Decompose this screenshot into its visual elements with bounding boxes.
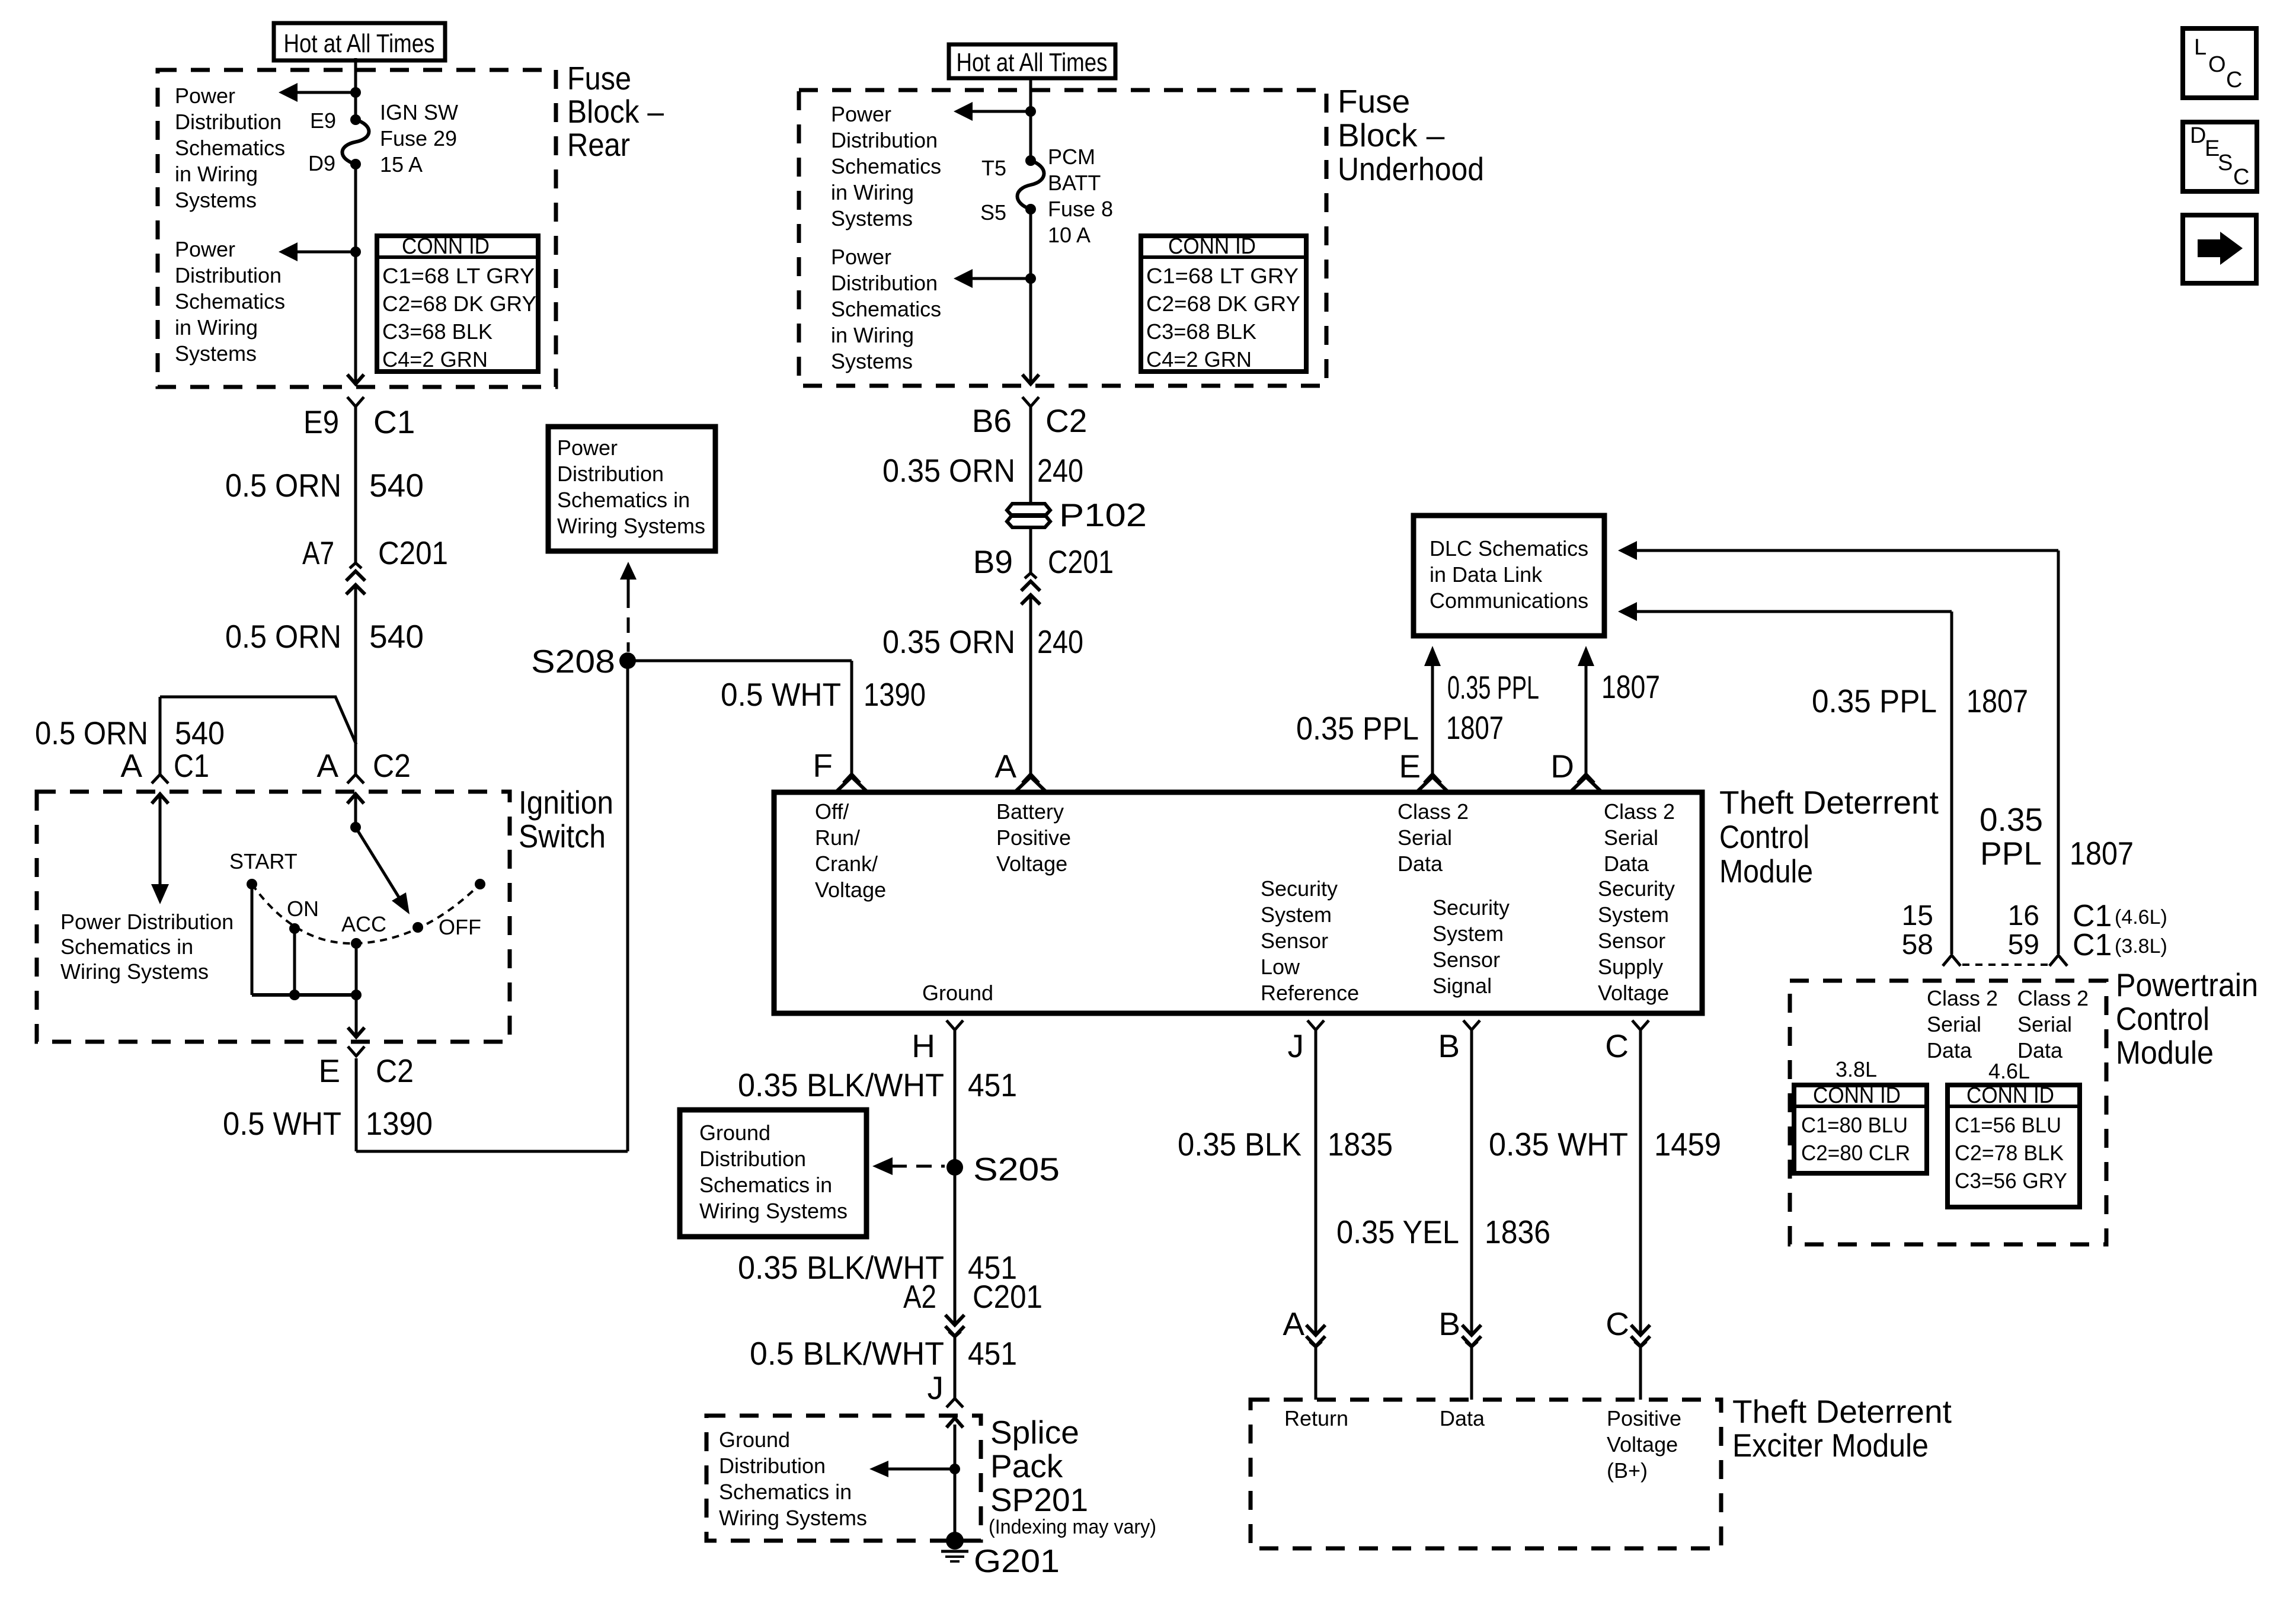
svg-text:C: C [1605, 1028, 1629, 1064]
svg-text:D: D [2190, 123, 2206, 148]
connector exit TDCM pin J [1307, 1020, 1324, 1030]
wire 1390 from S208 to TDCM pin F [628, 661, 852, 774]
wire label: 0.35 WHT 1459 [1489, 1126, 1721, 1163]
wire from TDCM pin J [1315, 1030, 1318, 1335]
splice S208 [619, 652, 636, 669]
wire 240 segment 1 [1029, 407, 1032, 504]
wire from TDCM pin C [1639, 1030, 1642, 1335]
pin label B9 / connector C201 [973, 543, 1114, 580]
svg-text:IGN SW: IGN SW [380, 100, 458, 124]
svg-text:Voltage: Voltage [1607, 1432, 1678, 1457]
rotary contact arc (dashed) [252, 884, 480, 943]
TDCM pin function: Security System Sensor Low Reference [1261, 876, 1359, 1005]
svg-text:1807: 1807 [1601, 668, 1660, 705]
svg-text:Distribution: Distribution [699, 1147, 806, 1171]
theft deterrent control module box [774, 792, 1702, 1013]
in-line connector to exciter pin C [1631, 1325, 1650, 1349]
wire: to connector C1 pin E9 [354, 252, 357, 384]
junction dot on underhood output [1025, 273, 1036, 284]
powertrain control module dashed box [1790, 981, 2106, 1244]
icon box arrow [2183, 215, 2256, 283]
component label: Powertrain Control Module [2116, 966, 2258, 1071]
wire label: 0.5 ORN 540 [225, 467, 424, 504]
pin label E / connector C2 [318, 1052, 414, 1089]
arrow to Power Distribution (underhood upper) [954, 102, 1031, 121]
note text: Power Distribution Schematics in Wiring Systems (ignition) [60, 910, 234, 984]
wire into exciter pin C [1639, 1347, 1642, 1400]
svg-text:E9: E9 [310, 108, 336, 133]
PCM pin function: Class 2 Serial Data (upper) [2017, 986, 2089, 1062]
svg-text:Switch: Switch [519, 818, 606, 854]
svg-text:0.35 YEL: 0.35 YEL [1336, 1214, 1459, 1250]
svg-text:C201: C201 [378, 534, 448, 571]
svg-text:Power: Power [175, 84, 235, 108]
svg-text:PCM: PCM [1048, 145, 1095, 169]
arrow to Power Distribution (rear lower) [279, 242, 356, 261]
svg-text:CONN ID: CONN ID [1966, 1083, 2054, 1108]
svg-text:Communications: Communications [1430, 588, 1588, 613]
svg-text:OFF: OFF [439, 915, 481, 939]
wire 1390 from ignition to splice S208 [356, 661, 628, 1151]
svg-text:System: System [1261, 902, 1332, 927]
svg-text:Return: Return [1284, 1406, 1348, 1430]
svg-text:1390: 1390 [366, 1105, 433, 1142]
svg-text:Systems: Systems [175, 341, 257, 366]
svg-text:Hot at All Times: Hot at All Times [284, 29, 435, 58]
svg-text:Voltage: Voltage [815, 878, 886, 902]
svg-text:0.35 PPL: 0.35 PPL [1447, 669, 1539, 706]
wire from ON contact [293, 929, 296, 995]
TDCM pin function: Battery Positive Voltage [996, 799, 1071, 876]
in-line connector C201 (ground wire) [945, 1315, 964, 1339]
engine label 3.8L [1835, 1057, 1877, 1081]
wire label: 0.5 ORN 540 (branch) [35, 715, 225, 751]
svg-text:S208: S208 [531, 643, 615, 680]
exciter pin function: Data [1440, 1406, 1485, 1430]
svg-text:Control: Control [2116, 1000, 2209, 1037]
svg-text:Security: Security [1261, 876, 1338, 901]
svg-text:Security: Security [1598, 876, 1675, 901]
wire: hot feed into fuse block underhood [1029, 78, 1032, 161]
wire label: 0.35 BLK/WHT 451 (1) [738, 1067, 1017, 1103]
svg-text:O: O [2208, 52, 2226, 77]
svg-text:Wiring Systems: Wiring Systems [557, 514, 705, 538]
svg-text:Control: Control [1719, 818, 1809, 855]
svg-text:540: 540 [369, 618, 424, 655]
position label START [229, 849, 298, 873]
svg-text:START: START [229, 849, 298, 873]
svg-text:Off/: Off/ [815, 799, 849, 824]
svg-text:1807: 1807 [1966, 683, 2028, 719]
splice label S205 [973, 1151, 1060, 1188]
TDCM pin function: Class 2 Serial Data (E) [1398, 799, 1469, 876]
svg-text:C2=80 CLR: C2=80 CLR [1801, 1141, 1910, 1165]
DLC schematics note box [1414, 516, 1604, 636]
wire label: 0.35 BLK/WHT 451 (2) [738, 1249, 1017, 1286]
wire: PCM serial data lower to DLC [1618, 602, 1952, 954]
junction dot on underhood feed [1025, 106, 1036, 117]
pin label D [1550, 748, 1574, 785]
pin label A2 / connector C201 (ground) [903, 1278, 1043, 1315]
splice pack SP201 dashed box [706, 1416, 981, 1541]
svg-text:C4=2 GRN: C4=2 GRN [382, 347, 488, 372]
component label: Theft Deterrent Exciter Module [1732, 1393, 1952, 1464]
svg-text:Sensor: Sensor [1261, 929, 1328, 953]
svg-text:Fuse: Fuse [1338, 83, 1410, 120]
svg-text:Power: Power [831, 102, 891, 126]
wire into exciter pin B [1470, 1347, 1473, 1400]
TDCM pin function: Security System Sensor Supply Voltage [1598, 876, 1675, 1005]
connector label C1 (4.6L) [2073, 899, 2167, 933]
svg-text:Voltage: Voltage [996, 852, 1067, 876]
svg-text:0.35 ORN: 0.35 ORN [882, 623, 1015, 660]
svg-text:A: A [1283, 1305, 1304, 1342]
svg-text:D9: D9 [308, 151, 335, 175]
svg-text:Wiring Systems: Wiring Systems [699, 1199, 848, 1223]
connector exit symbol at fuse block underhood [1022, 375, 1039, 406]
ground label G201 [974, 1542, 1060, 1579]
wire: hot feed into fuse block rear [354, 58, 357, 120]
svg-text:1807: 1807 [1446, 709, 1504, 746]
ground distribution note box (S205) [680, 1110, 866, 1237]
fuse F29 symbol [343, 114, 369, 169]
svg-text:Battery: Battery [996, 799, 1064, 824]
dashed reference line from S208 to note box [620, 562, 637, 652]
fuse value label: PCM BATT Fuse 8 10 A [1048, 145, 1113, 247]
svg-text:Splice: Splice [990, 1414, 1079, 1451]
wire label: 0.5 BLK/WHT 451 [750, 1335, 1017, 1372]
junction dot on rear feed [350, 87, 361, 98]
svg-text:D: D [1550, 748, 1574, 785]
svg-text:PPL: PPL [1980, 835, 2042, 872]
svg-text:C3=68 BLK: C3=68 BLK [1146, 319, 1256, 344]
svg-text:E: E [318, 1052, 340, 1089]
fuse terminal label S5 [980, 200, 1006, 225]
svg-text:Class 2: Class 2 [1398, 799, 1469, 824]
svg-text:C: C [2233, 165, 2249, 190]
svg-text:C201: C201 [1048, 543, 1114, 580]
junction-block label box: Hot at All Times (underhood) [949, 44, 1115, 78]
svg-text:Power Distribution: Power Distribution [60, 910, 234, 934]
svg-text:C2: C2 [373, 747, 411, 784]
svg-text:Distribution: Distribution [831, 128, 938, 152]
svg-text:Fuse 29: Fuse 29 [380, 126, 457, 151]
svg-text:in Wiring: in Wiring [175, 315, 258, 340]
connector exit symbol at fuse block rear [347, 375, 364, 406]
svg-text:0.35 PPL: 0.35 PPL [1812, 683, 1937, 719]
svg-text:CONN ID: CONN ID [1168, 234, 1256, 259]
svg-text:Reference: Reference [1261, 981, 1359, 1005]
junction-block label box: Hot at All Times (rear) [274, 23, 445, 60]
svg-text:C3=68 BLK: C3=68 BLK [382, 319, 493, 344]
svg-text:Power: Power [175, 237, 235, 261]
connector symbol TDCM pin F [836, 774, 868, 792]
pin label E9 / connector label C1 [303, 404, 415, 440]
svg-text:0.5 ORN: 0.5 ORN [35, 715, 148, 751]
wire: fuse 29 output [354, 164, 357, 252]
svg-text:1390: 1390 [864, 676, 926, 713]
contact dot OFF [412, 922, 423, 933]
svg-text:Theft Deterrent: Theft Deterrent [1719, 784, 1939, 821]
pin label A (TDCM battery) [994, 748, 1016, 785]
wire label: 0.35 BLK 1835 [1178, 1126, 1393, 1163]
svg-text:Data: Data [1927, 1038, 1972, 1062]
svg-text:Power: Power [831, 245, 891, 269]
connector exit TDCM pin B [1463, 1020, 1480, 1030]
svg-text:Ignition: Ignition [519, 784, 613, 821]
svg-text:Systems: Systems [175, 188, 257, 212]
svg-text:C2: C2 [1045, 402, 1087, 439]
wire label: 0.35 ORN 240 [882, 452, 1083, 489]
ground symbol G201 [941, 1551, 968, 1561]
svg-text:J: J [928, 1369, 944, 1406]
svg-text:0.35 PPL: 0.35 PPL [1296, 710, 1419, 747]
wire 540 segment 2 [354, 594, 357, 775]
svg-text:15: 15 [1902, 900, 1933, 932]
svg-text:540: 540 [369, 467, 424, 504]
ignition switch dashed box [37, 792, 510, 1042]
pin label A / connector C2 (ignition) [316, 747, 411, 784]
svg-text:C1=80 BLU: C1=80 BLU [1801, 1113, 1908, 1137]
pin label A7 / connector C201 [302, 534, 448, 571]
svg-text:J: J [1288, 1028, 1304, 1064]
svg-text:Serial: Serial [1604, 825, 1658, 850]
svg-text:Data: Data [1398, 852, 1443, 876]
wire 451 from pin H [954, 1030, 957, 1325]
svg-text:B: B [1438, 1028, 1460, 1064]
svg-text:240: 240 [1037, 623, 1083, 660]
svg-text:Distribution: Distribution [175, 263, 282, 287]
connector exit TDCM pin H [946, 1020, 963, 1030]
pin label F [813, 747, 833, 784]
connector symbol TDCM pin A [1015, 774, 1047, 792]
CONN ID table (fuse block underhood) [1141, 234, 1306, 372]
exciter pin function: Positive Voltage (B+) [1607, 1406, 1681, 1483]
wire label: 0.35 PPL 1807 (E) [1296, 709, 1504, 747]
contact dot START [247, 879, 257, 889]
PCM pin function: Class 2 Serial Data (lower) [1927, 986, 1998, 1062]
engine label 4.6L [1988, 1059, 2030, 1083]
component label: Fuse Block - Underhood [1338, 83, 1484, 187]
svg-text:A: A [316, 747, 338, 784]
connector symbol TDCM pin E [1416, 774, 1448, 792]
note text: Power Distribution Schematics in Wiring Systems (underhood lower) [831, 245, 941, 373]
wire: PCM serial data upper to DLC [1618, 541, 2058, 954]
svg-text:Supply: Supply [1598, 955, 1663, 979]
svg-text:Schematics in: Schematics in [60, 934, 193, 959]
svg-text:Underhood: Underhood [1338, 151, 1484, 187]
svg-text:Fuse 8: Fuse 8 [1048, 197, 1113, 221]
svg-text:C4=2 GRN: C4=2 GRN [1146, 347, 1252, 372]
svg-text:Ground: Ground [922, 981, 993, 1005]
note text: Ground Distribution Schematics in Wiring Systems (SP201) [719, 1427, 867, 1530]
pin label B [1438, 1028, 1460, 1064]
junction dot ON feed [289, 990, 300, 1000]
svg-text:Rear: Rear [567, 126, 630, 163]
svg-text:451: 451 [968, 1067, 1017, 1103]
wire label: 0.35 PPL 1807 (PCM lower) [1812, 683, 2028, 719]
svg-text:Schematics: Schematics [831, 297, 941, 321]
component label: Ignition Switch [519, 784, 613, 854]
wire: fuse 8 output [1029, 209, 1032, 384]
svg-text:C1=68 LT GRY: C1=68 LT GRY [1146, 264, 1299, 288]
pin label J (splice pack) [928, 1369, 944, 1406]
TDCM pin function: Security System Sensor Signal [1432, 895, 1510, 998]
svg-text:C1=68 LT GRY: C1=68 LT GRY [382, 264, 535, 288]
fuse block - underhood dashed box [799, 90, 1326, 386]
svg-text:S: S [2218, 151, 2233, 175]
wire from TDCM pin B [1470, 1030, 1473, 1335]
svg-text:Distribution: Distribution [831, 271, 938, 295]
wire label: 0.35 PPL 1807 (D) [1447, 668, 1660, 706]
svg-text:Distribution: Distribution [557, 462, 664, 486]
svg-text:(4.6L): (4.6L) [2115, 906, 2167, 929]
svg-text:Distribution: Distribution [175, 110, 282, 134]
svg-text:Module: Module [2116, 1034, 2214, 1071]
svg-text:240: 240 [1037, 452, 1083, 489]
svg-text:B9: B9 [973, 543, 1013, 580]
CONN ID table (PCM 3.8L) [1794, 1083, 1927, 1173]
CONN ID table (PCM 4.6L) [1948, 1083, 2080, 1207]
svg-text:Schematics: Schematics [831, 154, 941, 178]
svg-text:16: 16 [2008, 900, 2039, 932]
in-line connector C201 (orange wire) [346, 563, 365, 595]
svg-text:in Wiring: in Wiring [175, 162, 258, 186]
svg-text:4.6L: 4.6L [1988, 1059, 2030, 1083]
svg-text:0.5 WHT: 0.5 WHT [721, 676, 841, 713]
svg-text:Class 2: Class 2 [2017, 986, 2089, 1010]
connector label C1 (3.8L) [2073, 928, 2167, 962]
wire 240 to C201 [1029, 527, 1032, 573]
connector C1 dashed tie line [1962, 964, 2048, 966]
svg-text:Ground: Ground [699, 1121, 770, 1145]
svg-text:0.5 ORN: 0.5 ORN [225, 618, 341, 655]
pin label C (exciter) [1606, 1305, 1629, 1342]
switch movable arm with arrow [356, 827, 410, 914]
svg-text:C201: C201 [973, 1278, 1043, 1315]
wire from C1 pin A into switch [159, 796, 162, 884]
svg-text:G201: G201 [974, 1542, 1060, 1579]
component label: Theft Deterrent Control Module [1719, 784, 1939, 889]
pass-through grommet P102 [1007, 504, 1050, 527]
svg-text:1807: 1807 [2070, 835, 2134, 872]
svg-text:A: A [120, 747, 142, 784]
svg-text:in Wiring: in Wiring [831, 180, 914, 204]
fuse terminal label E9 [310, 108, 336, 133]
svg-text:Wiring Systems: Wiring Systems [719, 1506, 867, 1530]
wire label: 0.5 WHT 1390 (ignition out) [223, 1105, 433, 1142]
svg-text:1459: 1459 [1654, 1126, 1721, 1163]
in-line connector C201 (orange wire 240) [1021, 573, 1040, 605]
note text: Power Distribution Schematics in Wiring Systems (rear lower) [175, 237, 285, 366]
svg-text:Serial: Serial [1927, 1012, 1981, 1036]
svg-text:Fuse: Fuse [567, 60, 631, 97]
svg-text:Systems: Systems [831, 349, 913, 373]
wire from C2 pin A to switch arm pivot [354, 796, 357, 827]
wire inside splice pack [954, 1425, 957, 1537]
junction dot ACC feed [351, 990, 362, 1000]
svg-text:Ground: Ground [719, 1427, 790, 1452]
svg-text:1836: 1836 [1485, 1214, 1550, 1250]
connector exit symbol ignition C2 pin E [348, 1028, 364, 1056]
position label OFF [439, 915, 481, 939]
svg-text:Positive: Positive [996, 825, 1071, 850]
svg-text:Schematics: Schematics [175, 289, 285, 313]
svg-text:Class 2: Class 2 [1604, 799, 1675, 824]
wire label: 0.5 WHT 1390 (to TDCM) [721, 676, 926, 713]
svg-text:Sensor: Sensor [1432, 948, 1500, 972]
svg-text:C2=78 BLK: C2=78 BLK [1955, 1141, 2064, 1165]
connector symbol into ignition switch C2 [347, 774, 364, 804]
icon box LOC [2183, 28, 2256, 98]
ground G201 terminal dot [946, 1532, 964, 1550]
svg-text:0.35: 0.35 [1980, 801, 2043, 838]
svg-text:Power: Power [557, 436, 618, 460]
svg-text:C2=68 DK GRY: C2=68 DK GRY [382, 292, 536, 316]
svg-text:0.35 WHT: 0.35 WHT [1489, 1126, 1628, 1163]
svg-text:(B+): (B+) [1607, 1458, 1648, 1483]
pin label A (exciter) [1283, 1305, 1304, 1342]
svg-text:Security: Security [1432, 895, 1510, 920]
svg-text:C1: C1 [174, 747, 209, 784]
svg-text:T5: T5 [981, 156, 1006, 180]
splice label S208 [531, 643, 615, 680]
arrow to Power Distribution (underhood lower) [954, 269, 1031, 288]
pin labels 16/59 [2008, 900, 2039, 961]
svg-text:(3.8L): (3.8L) [2115, 935, 2167, 958]
svg-text:Hot at All Times: Hot at All Times [957, 48, 1108, 77]
arrow to ground distribution note (SP201) [869, 1461, 955, 1477]
svg-text:Low: Low [1261, 955, 1300, 979]
svg-text:A2: A2 [903, 1278, 936, 1315]
svg-text:C3=56 GRY: C3=56 GRY [1955, 1169, 2067, 1193]
wire 540 segment 1 [354, 407, 357, 563]
svg-text:59: 59 [2008, 929, 2039, 961]
svg-text:C: C [1606, 1305, 1629, 1342]
svg-text:SP201: SP201 [990, 1481, 1088, 1518]
svg-text:0.5 ORN: 0.5 ORN [225, 467, 341, 504]
svg-text:S5: S5 [980, 200, 1006, 225]
svg-text:C1=56 BLU: C1=56 BLU [1955, 1113, 2061, 1137]
svg-text:C: C [2226, 68, 2242, 92]
wire label: 0.35 YEL 1836 [1336, 1214, 1550, 1250]
svg-text:System: System [1598, 902, 1669, 927]
connector fork into PCM (upper wire) [2049, 955, 2067, 966]
svg-text:3.8L: 3.8L [1835, 1057, 1877, 1081]
svg-text:B: B [1438, 1305, 1460, 1342]
svg-text:System: System [1432, 921, 1504, 946]
svg-text:Exciter Module: Exciter Module [1732, 1427, 1929, 1464]
svg-text:10 A: 10 A [1048, 223, 1091, 247]
svg-text:CONN ID: CONN ID [1813, 1083, 1901, 1108]
svg-text:540: 540 [175, 715, 225, 751]
contact dot ON [289, 923, 300, 934]
svg-text:Powertrain: Powertrain [2116, 966, 2258, 1003]
svg-text:0.35 BLK: 0.35 BLK [1178, 1126, 1302, 1163]
fuse terminal label D9 [308, 151, 335, 175]
solid note box: Power Distribution Schematics in Wiring Systems (S208) [548, 427, 715, 551]
svg-text:(Indexing may vary): (Indexing may vary) [989, 1516, 1156, 1538]
svg-text:Sensor: Sensor [1598, 929, 1665, 953]
fuse terminal label T5 [981, 156, 1006, 180]
svg-text:Voltage: Voltage [1598, 981, 1669, 1005]
svg-text:0.35 ORN: 0.35 ORN [882, 452, 1015, 489]
pin label E [1399, 748, 1421, 785]
wire label: 0.35 PPL 1807 (PCM upper) [1980, 801, 2134, 872]
CONN ID table (fuse block rear) [377, 234, 538, 372]
svg-text:451: 451 [968, 1335, 1017, 1372]
connector exit TDCM pin C [1632, 1020, 1649, 1030]
